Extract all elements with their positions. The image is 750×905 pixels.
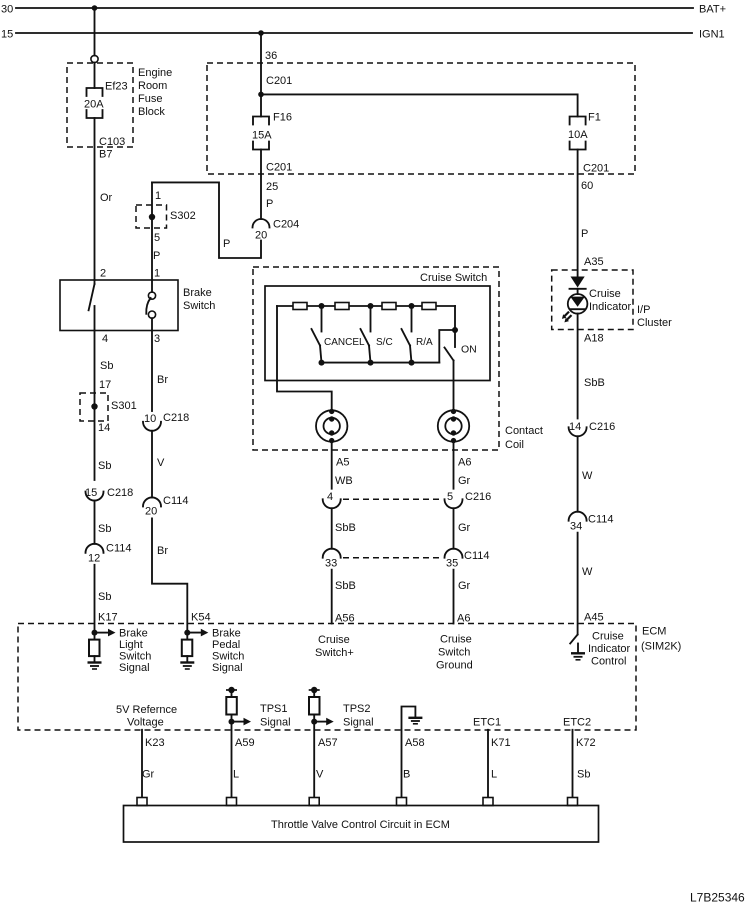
arrow TPS1 (232, 721, 245, 723)
Engine Room Fuse Block dashed box (67, 63, 133, 147)
resistor TPS2 (309, 689, 320, 691)
svg-text:25: 25 (266, 181, 278, 193)
svg-text:Block: Block (138, 106, 165, 118)
svg-text:K72: K72 (576, 737, 596, 749)
resistor R4 (422, 303, 436, 310)
resistor R2 (335, 303, 349, 310)
svg-text:34: 34 (570, 521, 582, 533)
svg-text:14: 14 (569, 421, 581, 433)
svg-text:IGN1: IGN1 (699, 29, 725, 41)
wire from fuse Ef23 to brake switch pin 2 (94, 118, 96, 280)
svg-text:B: B (403, 769, 410, 781)
svg-text:12: 12 (88, 553, 100, 565)
connector C204 pin 20 (253, 219, 270, 228)
svg-text:S301: S301 (111, 400, 137, 412)
svg-text:Brake: Brake (212, 628, 241, 640)
svg-text:A58: A58 (405, 737, 425, 749)
switch cruise indicator control (570, 635, 577, 644)
wire from ON switch down to right coil (453, 361, 455, 411)
svg-text:Brake: Brake (183, 287, 212, 299)
terminal K71 (483, 798, 493, 806)
switch ON blade (445, 348, 454, 361)
svg-text:L7B25346: L7B25346 (690, 891, 745, 905)
ground brake light (88, 661, 102, 663)
connector C114 pin 12 (86, 544, 104, 553)
svg-text:L: L (233, 769, 239, 781)
svg-text:K17: K17 (98, 612, 118, 624)
svg-text:Contact: Contact (505, 425, 543, 437)
svg-text:Indicator: Indicator (588, 643, 631, 655)
svg-text:Sb: Sb (98, 523, 111, 535)
wire below LED (577, 314, 579, 419)
svg-text:35: 35 (446, 558, 458, 570)
contact coil right (438, 410, 469, 441)
svg-text:C114: C114 (588, 514, 613, 526)
svg-text:V: V (316, 769, 324, 781)
resistor brake pedal signal (186, 633, 188, 640)
svg-text:V: V (157, 457, 165, 469)
junction dot s/c (368, 303, 374, 309)
svg-text:SbB: SbB (584, 377, 605, 389)
svg-text:I/P: I/P (637, 304, 650, 316)
junction on IGN1 bus (258, 30, 264, 36)
svg-text:Sb: Sb (98, 591, 111, 603)
wire from IGN1 down to branch node (260, 33, 262, 94)
wire Br from pin 3 (151, 331, 153, 412)
svg-text:Signal: Signal (260, 717, 291, 729)
splice S302 dashed box (136, 205, 167, 228)
svg-text:Cruise: Cruise (440, 634, 472, 646)
wire K23 to throttle box (141, 730, 143, 798)
svg-text:Voltage: Voltage (127, 717, 164, 729)
svg-text:A5: A5 (336, 457, 349, 469)
ECM dashed box (18, 624, 636, 731)
svg-text:Indicator: Indicator (589, 301, 632, 313)
svg-text:L: L (491, 769, 497, 781)
wire IGN1 bus (16, 32, 692, 34)
brake switch right pole (151, 280, 153, 292)
svg-text:W: W (582, 566, 593, 578)
wire ETC1 to K71 (487, 730, 489, 798)
fuse F1 10A (570, 117, 586, 125)
junction dot r/a (409, 303, 415, 309)
svg-text:Light: Light (119, 639, 143, 651)
cruise indicator LED (571, 277, 585, 288)
svg-text:Engine: Engine (138, 67, 172, 79)
svg-text:A35: A35 (584, 256, 604, 268)
svg-text:Br: Br (157, 374, 168, 386)
wire branch over to F1 (261, 94, 578, 116)
svg-text:C218: C218 (163, 412, 189, 424)
junction TPS1 (229, 719, 235, 725)
svg-text:Switch+: Switch+ (315, 647, 354, 659)
throttle valve control box (124, 806, 599, 843)
splice S301 dot (91, 403, 97, 409)
svg-text:P: P (153, 250, 160, 262)
arrow K17 (95, 632, 109, 634)
svg-text:C216: C216 (465, 491, 491, 503)
wire from left coil down (331, 442, 333, 489)
svg-text:A56: A56 (335, 613, 355, 625)
svg-text:ECM: ECM (642, 626, 666, 638)
brake switch box (60, 280, 178, 331)
wire from F1 down to I/P cluster (577, 150, 579, 277)
svg-text:(SIM2K): (SIM2K) (641, 641, 681, 653)
switch CANCEL (321, 306, 323, 332)
fuse F16 15A (253, 117, 269, 125)
svg-text:ETC1: ETC1 (473, 717, 501, 729)
svg-text:A6: A6 (457, 613, 470, 625)
svg-text:Pedal: Pedal (212, 639, 240, 651)
dashed connector link 4-5 (343, 498, 441, 500)
wire ETC2 to K72 (572, 730, 574, 798)
wire ON node to bottom bus (439, 330, 455, 363)
svg-text:B7: B7 (99, 149, 112, 161)
terminal A58 (397, 798, 407, 806)
terminal A59 (227, 798, 237, 806)
svg-text:Room: Room (138, 80, 167, 92)
svg-text:10: 10 (144, 413, 156, 425)
switch R/A (411, 306, 413, 332)
junction K54 (184, 630, 190, 636)
junction ON node (452, 327, 458, 333)
connector pin 35 (445, 549, 463, 558)
terminal A57 (309, 798, 319, 806)
svg-text:Ef23: Ef23 (105, 81, 128, 93)
svg-text:5: 5 (447, 491, 453, 503)
junction dot cancel (319, 303, 325, 309)
svg-text:Gr: Gr (458, 475, 471, 487)
wire BAT+ bus (16, 7, 693, 9)
wire SbB to A56 (331, 570, 333, 624)
svg-text:4: 4 (102, 333, 108, 345)
wire TPS2 to A57 (313, 722, 315, 798)
wire from BAT+ down to fuse block (94, 8, 96, 56)
LED emission arrows (564, 312, 569, 317)
wire from F16 down to C204 (260, 150, 262, 220)
svg-text:15: 15 (1, 29, 13, 41)
svg-text:C218: C218 (107, 487, 133, 499)
svg-text:C114: C114 (163, 495, 188, 507)
splice S302 dot (149, 214, 155, 220)
wire top bus (277, 305, 455, 307)
resistor TPS1 (226, 689, 237, 691)
svg-text:Fuse: Fuse (138, 93, 162, 105)
wire Sb below C218 (94, 501, 96, 544)
svg-text:Ground: Ground (436, 660, 473, 672)
svg-text:Switch: Switch (183, 300, 215, 312)
svg-text:Sb: Sb (577, 769, 590, 781)
svg-text:Throttle Valve Control Circuit: Throttle Valve Control Circuit in ECM (271, 819, 450, 831)
svg-text:Gr: Gr (458, 580, 471, 592)
wire bottom bus (322, 362, 440, 364)
svg-text:P: P (223, 238, 230, 250)
svg-text:Control: Control (591, 656, 626, 668)
svg-text:K23: K23 (145, 737, 165, 749)
contact coil left (316, 410, 347, 441)
svg-text:SbB: SbB (335, 580, 356, 592)
svg-text:Cruise: Cruise (589, 288, 621, 300)
ground brake pedal (180, 661, 194, 663)
wire Sb from pin 4 (94, 331, 96, 481)
svg-text:30: 30 (1, 4, 13, 16)
svg-text:A59: A59 (235, 737, 255, 749)
wire from bus left end down and over to left coil (277, 306, 332, 410)
wire W to A45 (577, 533, 579, 635)
svg-text:1: 1 (155, 190, 161, 202)
svg-text:CANCEL: CANCEL (324, 337, 365, 348)
wire TPS1 to A59 (231, 722, 233, 798)
svg-text:Coil: Coil (505, 439, 524, 451)
svg-text:ETC2: ETC2 (563, 717, 591, 729)
resistor brake light signal (94, 633, 96, 640)
Cruise Switch dashed box (253, 267, 499, 450)
junction K17 (92, 630, 98, 636)
svg-text:C201: C201 (266, 162, 292, 174)
svg-text:Br: Br (157, 545, 168, 557)
wire ON fixed contact stub (454, 330, 456, 347)
svg-text:Cluster: Cluster (637, 317, 672, 329)
fuse Ef23 20A (87, 88, 103, 96)
terminal K23 (137, 798, 147, 806)
svg-text:Cruise: Cruise (592, 631, 624, 643)
resistor R1 (293, 303, 307, 310)
svg-text:SbB: SbB (335, 522, 356, 534)
svg-text:A6: A6 (458, 457, 471, 469)
switch S/C (370, 306, 372, 332)
arrow TPS2 (314, 721, 327, 723)
svg-text:P: P (266, 198, 273, 210)
wire Gr to A6 (453, 570, 455, 624)
svg-text:33: 33 (325, 558, 337, 570)
ground A58 (402, 707, 416, 798)
svg-text:Sb: Sb (98, 460, 111, 472)
wire Br routed to K54 (152, 518, 187, 632)
svg-text:C216: C216 (589, 421, 615, 433)
wire Sb to K17 (94, 565, 96, 633)
svg-text:Switch: Switch (119, 651, 151, 663)
svg-text:10A: 10A (568, 129, 588, 141)
svg-text:14: 14 (98, 422, 110, 434)
cruise switch inner box (265, 286, 490, 381)
wire Gr below pin 5 (453, 508, 455, 548)
connector pin 33 (323, 549, 341, 558)
svg-text:4: 4 (327, 491, 333, 503)
resistor R3 (382, 303, 396, 310)
svg-text:Cruise Switch: Cruise Switch (420, 272, 487, 284)
svg-text:20: 20 (145, 506, 157, 518)
dashed connector link 33-35 (343, 557, 441, 559)
connector circle at fuse block entry (91, 55, 98, 62)
svg-text:20A: 20A (84, 99, 104, 111)
svg-text:Gr: Gr (142, 769, 155, 781)
svg-text:3: 3 (154, 333, 160, 345)
wire into fuse Ef23 (94, 63, 96, 88)
svg-text:K71: K71 (491, 737, 511, 749)
svg-text:1: 1 (154, 268, 160, 280)
svg-text:TPS1: TPS1 (260, 703, 288, 715)
svg-text:Switch: Switch (212, 651, 244, 663)
svg-text:S/C: S/C (376, 337, 393, 348)
I/P cluster dashed box (552, 270, 633, 330)
svg-text:A18: A18 (584, 333, 604, 345)
svg-text:BAT+: BAT+ (699, 4, 726, 16)
svg-text:TPS2: TPS2 (343, 703, 371, 715)
svg-text:C114: C114 (106, 543, 131, 555)
svg-text:Switch: Switch (438, 647, 470, 659)
svg-text:C201: C201 (266, 75, 292, 87)
svg-text:WB: WB (335, 475, 353, 487)
svg-text:Brake: Brake (119, 628, 148, 640)
wire from bend down to brake switch pin 1 (151, 182, 153, 280)
svg-text:C201: C201 (583, 163, 609, 175)
svg-text:Cruise: Cruise (318, 634, 350, 646)
svg-text:Signal: Signal (119, 662, 150, 674)
svg-text:P: P (581, 228, 588, 240)
wire bus right end down to ON node (454, 306, 456, 330)
wire SbB below pin 4 (331, 508, 333, 548)
svg-text:C114: C114 (464, 550, 489, 562)
svg-text:5V Refernce: 5V Refernce (116, 704, 177, 716)
svg-text:A45: A45 (584, 612, 604, 624)
svg-text:5: 5 (154, 232, 160, 244)
ground cruise indicator (577, 644, 579, 653)
svg-text:Signal: Signal (212, 662, 243, 674)
brake switch left pole (94, 280, 96, 284)
terminal K72 (568, 798, 578, 806)
svg-text:ON: ON (461, 344, 477, 356)
svg-text:S302: S302 (170, 210, 196, 222)
wire V below C218 (151, 431, 153, 498)
wire from right coil down (453, 442, 455, 489)
svg-text:2: 2 (100, 268, 106, 280)
wire from C204 routed left to S302 (152, 182, 261, 258)
C201 body harness dashed box (207, 63, 635, 174)
svg-text:15A: 15A (252, 130, 272, 142)
svg-text:A57: A57 (318, 737, 338, 749)
svg-text:F1: F1 (588, 112, 601, 124)
wire into fuse F16 (260, 94, 262, 116)
svg-text:17: 17 (99, 379, 111, 391)
svg-text:Or: Or (100, 192, 113, 204)
svg-text:36: 36 (265, 50, 277, 62)
svg-text:Sb: Sb (100, 360, 113, 372)
svg-text:C204: C204 (273, 219, 299, 231)
svg-text:R/A: R/A (416, 337, 433, 348)
svg-text:Gr: Gr (458, 522, 471, 534)
splice S301 dashed box (80, 393, 108, 421)
junction on BAT+ bus (92, 5, 98, 11)
svg-text:W: W (582, 470, 593, 482)
svg-text:F16: F16 (273, 112, 292, 124)
junction branch to F1 (258, 92, 264, 98)
junction TPS2 (311, 719, 317, 725)
svg-text:K54: K54 (191, 612, 211, 624)
svg-text:Signal: Signal (343, 717, 374, 729)
arrow K54 (187, 632, 201, 634)
svg-text:C103: C103 (99, 136, 125, 148)
junction dots bottom bus (319, 360, 325, 366)
connector C114 pin 34 (569, 512, 587, 521)
wire W below C216 (577, 436, 579, 511)
connector C114 pin 20 (143, 497, 161, 506)
svg-text:60: 60 (581, 180, 593, 192)
